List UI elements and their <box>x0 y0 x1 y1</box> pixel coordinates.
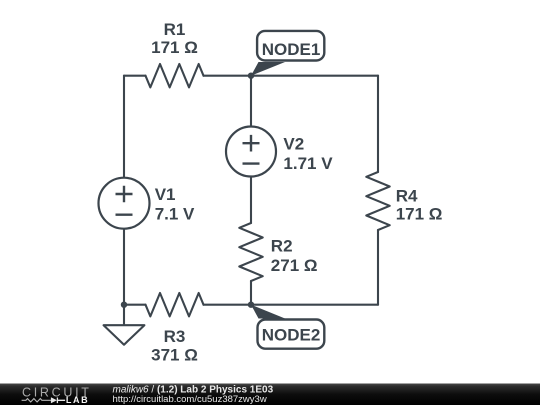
voltage source V1 <box>99 178 150 229</box>
wire middle vertical (V2 to R2) <box>250 177 252 224</box>
svg-text:R3: R3 <box>164 327 186 346</box>
svg-text:R1: R1 <box>164 20 186 39</box>
wire top horizontal left lead <box>124 75 146 77</box>
svg-text:http://circuitlab.com/cu5uz387: http://circuitlab.com/cu5uz387zwy3w <box>113 394 267 405</box>
svg-text:1.71 V: 1.71 V <box>283 154 333 173</box>
wire middle vertical (R2 to node2) <box>250 281 252 305</box>
svg-text:7.1 V: 7.1 V <box>155 205 195 224</box>
wire left vertical (bottom) <box>123 229 125 305</box>
label R2 value <box>271 236 318 275</box>
CircuitLab logo <box>22 385 92 405</box>
svg-text:LAB: LAB <box>66 395 89 405</box>
label R3 value <box>151 327 198 365</box>
resistor R2 <box>239 223 262 281</box>
label V1 value <box>155 185 195 224</box>
label V2 value <box>283 135 333 174</box>
voltage source V2 <box>226 127 276 177</box>
wire bottom horizontal right of R3 <box>204 304 379 306</box>
resistor R3 <box>146 293 204 316</box>
node dot NODE2 junction <box>248 302 254 308</box>
svg-text:R4: R4 <box>396 187 418 206</box>
wire top horizontal right of R1 <box>204 75 379 77</box>
svg-text:R2: R2 <box>271 236 293 255</box>
wire bottom horizontal left lead <box>124 304 146 306</box>
footer bar <box>0 384 540 405</box>
svg-text:NODE2: NODE2 <box>262 326 321 345</box>
node NODE1 label callout <box>251 31 324 76</box>
resistor R4 <box>366 172 389 230</box>
wire right vertical (R4 to bottom) <box>377 230 379 305</box>
wire left vertical (top) <box>123 76 125 178</box>
footer text credit <box>113 384 274 405</box>
ground <box>104 305 145 345</box>
resistor R1 <box>146 64 204 87</box>
svg-text:NODE1: NODE1 <box>262 40 321 59</box>
wire right vertical (top to R4) <box>377 76 379 172</box>
svg-text:V1: V1 <box>155 185 176 204</box>
svg-text:V2: V2 <box>283 135 304 154</box>
svg-text:171 Ω: 171 Ω <box>396 204 443 223</box>
node dot ground junction <box>121 302 127 308</box>
label R1 value <box>151 20 198 57</box>
node dot NODE1 junction <box>248 73 254 79</box>
svg-text:171 Ω: 171 Ω <box>151 38 198 57</box>
wire middle vertical (node1 to V2) <box>250 76 252 127</box>
svg-text:271 Ω: 271 Ω <box>271 256 318 275</box>
node NODE2 label callout <box>251 305 324 349</box>
svg-text:371 Ω: 371 Ω <box>151 345 198 364</box>
label R4 value <box>396 187 443 224</box>
